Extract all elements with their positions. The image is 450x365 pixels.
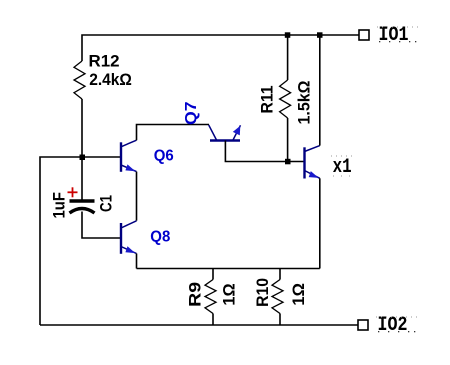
wire R12 bottom to C1 xyxy=(81,99,83,200)
svg-text:R10: R10 xyxy=(253,278,272,307)
resistor R11 xyxy=(258,35,314,162)
transistor Q8 xyxy=(121,221,137,254)
node A junction xyxy=(80,155,86,161)
svg-text:1.5kΩ: 1.5kΩ xyxy=(295,81,314,125)
transistor Q7 xyxy=(209,125,241,141)
wire C1 bottom to Q8 base xyxy=(82,212,120,239)
resistor R10 xyxy=(253,269,308,326)
capacitor C1 xyxy=(50,192,116,219)
transistor X1 xyxy=(305,146,320,179)
resistor R12 xyxy=(74,61,85,99)
svg-text:R9: R9 xyxy=(185,282,204,307)
transistor Q6 xyxy=(121,140,137,172)
wire top rail xyxy=(82,35,359,61)
resistor R9 xyxy=(185,269,238,326)
svg-text:R12: R12 xyxy=(89,52,120,71)
svg-text:Q6: Q6 xyxy=(154,147,174,164)
svg-text:Q7: Q7 xyxy=(183,101,200,125)
svg-text:1Ω: 1Ω xyxy=(289,283,308,306)
x1 label selection dots xyxy=(331,156,352,177)
svg-text:1uF: 1uF xyxy=(50,192,69,219)
terminal IO2 xyxy=(358,320,368,330)
node junction top X1 xyxy=(317,32,323,38)
svg-text:x1: x1 xyxy=(333,156,352,179)
svg-text:1Ω: 1Ω xyxy=(220,283,239,305)
node junction R11 bottom xyxy=(285,159,291,165)
svg-text:Q8: Q8 xyxy=(150,229,170,246)
wire junction to left rail xyxy=(40,157,82,325)
wire Q8 emitter to bottom mid rail xyxy=(136,254,138,269)
wire junction to Q6 base xyxy=(82,156,120,158)
node junction top R11 xyxy=(285,32,291,38)
wire bottom rail to IO2 xyxy=(40,324,358,326)
svg-text:R11: R11 xyxy=(258,86,277,114)
plus sign of C1 xyxy=(68,187,78,197)
wire bottom mid rail xyxy=(137,268,320,270)
wire X1 collector to top rail xyxy=(319,35,321,146)
terminal IO1 xyxy=(359,30,369,40)
wire Q6 emitter to Q8 collector xyxy=(136,172,138,221)
svg-text:2.4kΩ: 2.4kΩ xyxy=(89,70,132,89)
wire Q6 collector up and right xyxy=(137,125,210,141)
wire X1 emitter to bottom mid rail xyxy=(319,178,321,268)
svg-text:C1: C1 xyxy=(97,195,116,212)
wire Q7 base down and right to X1 base xyxy=(225,141,304,162)
